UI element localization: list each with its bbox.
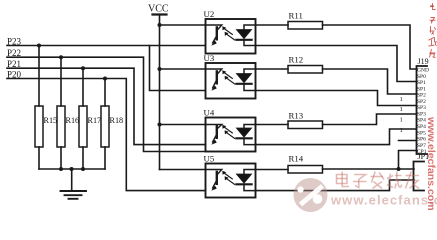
svg-text:SP0: SP0	[417, 74, 426, 80]
resistor R16	[57, 57, 79, 169]
svg-text:R15: R15	[44, 116, 58, 125]
node P21	[7, 59, 21, 69]
wire P22 to U4 box corner	[7, 57, 206, 151]
wire R14 to JP1 pin1	[323, 168, 415, 170]
svg-text:R18: R18	[110, 116, 124, 125]
wire P23 branch to U3	[150, 46, 206, 91]
wire stub J19 pin7	[399, 140, 417, 142]
wire U2 emitter out to J19 pin2	[256, 46, 417, 82]
wire U4 emitter out to J19 pin6	[256, 129, 417, 145]
node P23	[7, 36, 22, 46]
watermark logo circle	[294, 178, 328, 212]
svg-text:SP3: SP3	[417, 105, 426, 111]
junction P20/R18	[103, 77, 107, 81]
junction P21/R17	[81, 66, 85, 70]
wire VCC to U5	[160, 169, 206, 171]
svg-text:R12: R12	[289, 55, 304, 65]
connector J19	[417, 57, 429, 154]
svg-text:1: 1	[400, 106, 403, 113]
svg-text:SP2: SP2	[417, 99, 426, 105]
resistor R15	[35, 46, 57, 170]
svg-text:1: 1	[400, 96, 403, 103]
resistor R17	[79, 68, 101, 169]
svg-text:R14: R14	[289, 154, 304, 164]
ground	[61, 169, 87, 199]
optocoupler U4	[204, 107, 256, 151]
wire R11 to J19 pin1	[323, 25, 417, 69]
junction VCC/U3	[158, 67, 162, 71]
svg-text:www.elecfans.com: www.elecfans.com	[330, 193, 437, 208]
svg-text:U4: U4	[204, 107, 215, 117]
svg-text:1: 1	[400, 117, 403, 124]
svg-text:www.elecfans.com: www.elecfans.com	[425, 116, 437, 211]
watermark chinese text	[337, 172, 420, 189]
wire VCC to U2	[160, 24, 206, 26]
wire VCC to U3	[160, 68, 206, 70]
junction rail/R17	[81, 167, 85, 171]
junction P22/R16	[59, 55, 63, 59]
wire ground rail	[39, 168, 105, 170]
svg-text:R11: R11	[289, 11, 303, 21]
svg-text:U5: U5	[204, 153, 215, 163]
svg-text:SP2: SP2	[417, 93, 426, 99]
svg-text:GND: GND	[417, 68, 429, 74]
optocoupler U5	[204, 153, 256, 197]
wire P21 to U4 pin	[7, 68, 206, 144]
svg-text:J19: J19	[418, 57, 429, 66]
junction rail/R16	[59, 167, 63, 171]
wire R14 branch to J19 pin8	[399, 151, 417, 170]
svg-text:SP1: SP1	[417, 80, 426, 86]
svg-text:U2: U2	[204, 9, 215, 19]
wire P23 to U2 pin	[7, 45, 206, 47]
svg-text:SP1: SP1	[417, 86, 426, 92]
svg-text:R13: R13	[289, 111, 304, 121]
svg-text:SP6: SP6	[417, 137, 426, 143]
node P20	[7, 70, 22, 80]
wire R12 to J19 pin3	[323, 69, 417, 94]
svg-text:VCC: VCC	[148, 4, 169, 15]
power symbol VCC	[148, 4, 169, 170]
svg-text:SP4: SP4	[417, 124, 426, 130]
svg-text:1: 1	[400, 127, 403, 134]
wire R13 to J19 pin5	[323, 114, 417, 125]
junction R14 branch	[397, 167, 401, 171]
svg-text:R17: R17	[88, 116, 102, 125]
resistor R13	[256, 111, 323, 129]
svg-text:SP5: SP5	[417, 130, 426, 136]
junction VCC/U2	[158, 23, 162, 27]
svg-text:SP3: SP3	[417, 112, 426, 118]
junction rail/ground	[70, 167, 74, 171]
pin number 1 labels	[400, 96, 403, 134]
resistor R11	[256, 11, 323, 30]
node P22	[7, 48, 21, 58]
wire U5 emitter out to JP1 pin2	[256, 180, 415, 191]
watermark right edge chinese	[429, 3, 437, 58]
pin labels J19	[417, 68, 429, 156]
optocoupler U3	[204, 53, 256, 99]
junction VCC/U4	[158, 123, 162, 127]
resistor R14	[256, 154, 323, 174]
svg-text:U3: U3	[204, 53, 215, 63]
connector JP1	[414, 152, 430, 191]
resistor R12	[256, 55, 323, 74]
wire U3 emitter out to J19 pin4	[256, 91, 417, 106]
wire P20 to U5 pin	[7, 79, 206, 191]
svg-text:SP7: SP7	[417, 143, 426, 149]
resistor R18	[101, 79, 123, 170]
svg-text:R16: R16	[66, 116, 80, 125]
svg-text:SP4: SP4	[417, 118, 426, 124]
optocoupler U2	[204, 9, 256, 54]
junction P23/R15	[37, 44, 41, 48]
wire VCC to U4	[160, 124, 206, 126]
